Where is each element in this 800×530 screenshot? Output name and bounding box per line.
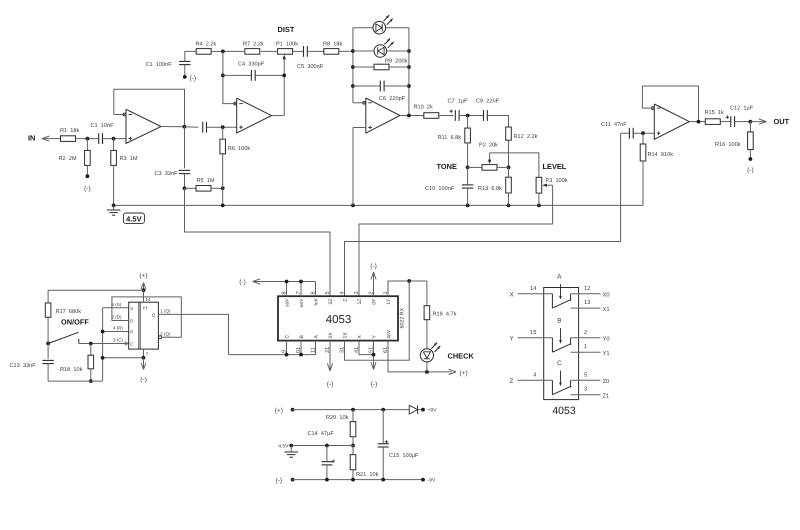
svg-text:11: 11: [311, 347, 317, 353]
node pin numbers top: [282, 291, 390, 294]
svg-text:C14 47µF: C14 47µF: [308, 431, 335, 437]
wire pins14-15 to (-) arrow: [359, 341, 377, 388]
wire U1 output: [161, 126, 185, 128]
node DIST title: [278, 25, 295, 34]
node (+) supply label: [275, 407, 283, 414]
node R18-bottom junction: [89, 379, 93, 383]
node (-) rail left of IC: [239, 279, 315, 286]
wire signal to pin5: [185, 188, 331, 296]
svg-text:C3 33nF: C3 33nF: [155, 171, 179, 177]
svg-text:ppV: ppV: [386, 329, 392, 339]
svg-text:R15 1k: R15 1k: [705, 109, 724, 116]
svg-text:1Y: 1Y: [386, 298, 392, 305]
svg-text:5: 5: [584, 373, 587, 379]
node C11-R14 junction: [641, 131, 645, 135]
svg-text:CHECK: CHECK: [448, 351, 475, 360]
svg-text:1X: 1X: [343, 332, 349, 339]
wire pin8 stub: [286, 282, 288, 297]
node rail junction R: [101, 330, 105, 334]
node R4-R7 junction: [221, 50, 225, 54]
svg-text:C12 1µF: C12 1µF: [730, 105, 754, 111]
svg-text:(-): (-): [190, 75, 197, 82]
resistor R9: [353, 58, 409, 70]
svg-text:(-): (-): [84, 186, 91, 193]
svg-text:4.5V: 4.5V: [126, 214, 141, 223]
transistor SWB analog switch B: [510, 317, 610, 357]
wire 4.5V bus: [114, 204, 643, 206]
node A2 junction: [112, 137, 116, 141]
svg-text:hnI: hnI: [314, 299, 320, 306]
svg-text:IN: IN: [28, 134, 35, 143]
svg-text:C10 100nF: C10 100nF: [425, 186, 455, 192]
wire: [720, 121, 730, 123]
wire: [261, 50, 278, 52]
svg-text:eeV: eeV: [299, 298, 305, 308]
resistor R11: [438, 116, 471, 168]
capacitor C1 10nF: [91, 123, 115, 144]
svg-text:R12 2.2k: R12 2.2k: [514, 133, 538, 140]
svg-text:1Z: 1Z: [357, 299, 363, 305]
op-amp U6 4013 flip-flop body: [129, 302, 159, 349]
svg-text:1: 1: [584, 344, 587, 350]
transistor SW1 footswitch: [48, 332, 79, 343]
wire feedback U4: [642, 86, 698, 122]
wire: [293, 50, 303, 52]
resistor R19: [424, 281, 457, 349]
svg-text:R: R: [130, 330, 133, 335]
node plus-rail junctions: [351, 408, 385, 412]
node pin14-15 junction: [372, 353, 376, 357]
wire pin1 to R19 net: [388, 281, 427, 296]
svg-text:(+): (+): [460, 370, 468, 377]
capacitor C2: [185, 122, 237, 133]
diode LED3 CHECK: [420, 343, 440, 372]
svg-text:4053: 4053: [552, 405, 576, 417]
svg-text:R2 2M: R2 2M: [59, 156, 77, 162]
svg-text:14: 14: [145, 297, 151, 302]
svg-text:Z1: Z1: [603, 394, 610, 400]
svg-text:9: 9: [282, 350, 288, 353]
resistor R2: [59, 139, 91, 177]
wire pin16 to (+) arrow: [388, 341, 468, 377]
node OUT junction: [749, 120, 753, 124]
svg-text:R6 100k: R6 100k: [228, 145, 251, 152]
resistor R6: [220, 127, 250, 188]
node OUT terminal: [750, 117, 789, 126]
svg-text:+9V: +9V: [428, 408, 438, 414]
svg-text:Y0: Y0: [603, 336, 610, 343]
node C7-C9 junction: [466, 114, 470, 118]
svg-text:R14 910k: R14 910k: [648, 151, 674, 158]
svg-text:(-): (-): [327, 381, 334, 388]
node C2-R6 junction: [221, 125, 225, 129]
wire pin4 to C11: [345, 133, 621, 296]
node (-) supply label: [276, 477, 283, 484]
svg-text:R21 10k: R21 10k: [356, 471, 379, 478]
wire: [76, 138, 99, 140]
svg-text:5: 5: [325, 291, 331, 294]
wire C9 to R12: [488, 116, 509, 128]
svg-text:2 (Q): 2 (Q): [160, 331, 171, 336]
svg-text:4.5V: 4.5V: [278, 443, 289, 449]
node plus-rail start: [291, 408, 295, 412]
node IN (input terminal): [28, 134, 61, 143]
svg-text:X1: X1: [603, 307, 610, 313]
potentiometer P1 100k: [276, 41, 298, 116]
op-amp U5 4053 IC body: [278, 296, 398, 340]
diode D1: [409, 405, 423, 414]
node pin7 junction: [299, 280, 303, 284]
node R5-right junction: [221, 186, 225, 190]
wire FF ground pin: [144, 349, 149, 358]
node A1 junction: [86, 137, 90, 141]
capacitor C1b 100nF: [146, 51, 197, 77]
resistor R21: [350, 446, 378, 480]
node C3-R5 junction: [183, 186, 187, 190]
node pin1-net junction: [407, 279, 411, 283]
wire: [339, 50, 353, 52]
svg-text:C11 47nF: C11 47nF: [601, 122, 627, 128]
svg-text:TT: TT: [143, 306, 149, 311]
svg-text:C5 300nF: C5 300nF: [297, 64, 324, 70]
potentiometer P3 100k: [536, 177, 568, 206]
wire LED-loop right rail: [408, 28, 410, 116]
node switch-R18 junction: [89, 342, 93, 346]
svg-text:R4 2.2k: R4 2.2k: [196, 41, 217, 48]
diode LED2: [353, 38, 409, 57]
op-amp U3: [363, 98, 400, 133]
node XR 2206 label: [399, 307, 405, 328]
capacitor C5 300nF: [297, 46, 324, 70]
resistor R12: [506, 127, 538, 167]
node C4 feedback left: [221, 74, 225, 78]
node +9V terminal: [421, 408, 437, 414]
svg-text:4 (R): 4 (R): [113, 326, 124, 331]
svg-text:R9 200k: R9 200k: [385, 58, 408, 65]
svg-text:C9 22nF: C9 22nF: [476, 98, 500, 104]
resistor R20: [326, 410, 356, 446]
node pin9 junction: [285, 353, 289, 357]
resistor R16: [715, 122, 753, 159]
svg-text:3: 3: [354, 291, 360, 294]
svg-text:21: 21: [325, 347, 331, 353]
svg-text:TONE: TONE: [437, 162, 457, 171]
svg-text:31: 31: [340, 347, 346, 353]
node FF-gnd junction: [142, 356, 146, 360]
svg-text:R1 18k: R1 18k: [60, 127, 79, 134]
node (+) above flip-flop: [139, 273, 147, 291]
svg-text:C1 100nF: C1 100nF: [146, 62, 173, 68]
svg-text:R8 18k: R8 18k: [323, 41, 342, 48]
svg-text:Z0: Z0: [603, 378, 610, 385]
wire: [459, 115, 483, 117]
svg-text:ssV: ssV: [285, 298, 291, 307]
svg-text:0Z: 0Z: [328, 299, 334, 305]
svg-text:R18 10k: R18 10k: [60, 366, 83, 373]
capacitor C4 330pF: [223, 62, 284, 81]
svg-text:51: 51: [369, 347, 375, 353]
wire plus rail: [293, 409, 410, 411]
svg-text:3 (C): 3 (C): [113, 338, 124, 343]
svg-text:(+): (+): [139, 273, 147, 280]
svg-text:LEVEL: LEVEL: [543, 162, 567, 171]
wire: [735, 121, 751, 123]
svg-text:C: C: [285, 335, 291, 339]
svg-text:12: 12: [584, 285, 590, 292]
wire LED-loop left rail: [353, 28, 366, 103]
capacitor C9 22nF: [476, 98, 500, 121]
resistor R5: [185, 178, 223, 191]
svg-text:C4 330pF: C4 330pF: [238, 62, 265, 68]
svg-text:R3 1M: R3 1M: [120, 156, 138, 162]
wire to U2 inverting input: [223, 51, 237, 103]
svg-text:(-): (-): [370, 263, 377, 270]
wire minus rail: [293, 479, 423, 481]
resistor R17: [45, 290, 81, 343]
svg-text:DIST: DIST: [278, 25, 295, 34]
wire R5 to 4.5V bus: [222, 188, 224, 205]
transistor SWA analog switch A: [510, 273, 610, 313]
resistor R3: [111, 139, 138, 206]
resistor R14: [640, 133, 673, 205]
svg-text:-9V: -9V: [428, 478, 436, 484]
diode LED1: [353, 15, 409, 34]
svg-text:P3 100k: P3 100k: [546, 177, 568, 184]
svg-text:Z: Z: [510, 378, 514, 385]
node mid-rail junctions: [289, 444, 328, 448]
svg-text:2 (D): 2 (D): [112, 315, 123, 320]
resistor R18: [60, 344, 94, 382]
capacitor C15 100uF: [378, 410, 419, 480]
svg-text:C13 33nF: C13 33nF: [10, 363, 37, 369]
op-amp U1: [123, 109, 161, 143]
svg-text:(-): (-): [140, 376, 147, 383]
wire top rail: [48, 289, 143, 291]
svg-text:OUT: OUT: [774, 117, 790, 126]
wire P2 wiper to P3 top: [490, 153, 539, 177]
capacitor C11 47nF: [601, 122, 654, 138]
wire feedback U1: [114, 89, 185, 126]
wire pin13 riser: [345, 281, 410, 360]
node U4-out junction: [697, 120, 701, 124]
svg-text:4: 4: [340, 291, 346, 294]
resistor R8: [323, 41, 342, 54]
svg-text:13: 13: [584, 299, 590, 306]
node pin10 junction: [299, 353, 303, 357]
wire Q-bar to D loop: [112, 297, 181, 339]
svg-text:(-): (-): [276, 477, 283, 484]
node pin16-LED junction: [425, 370, 429, 374]
node U3-out junction: [407, 114, 411, 118]
wire bottom rail: [48, 380, 103, 382]
node (-) below R16: [747, 157, 754, 174]
wire set-reset rail: [103, 308, 144, 381]
svg-text:C1 10nF: C1 10nF: [91, 123, 115, 129]
svg-text:6022 RX: 6022 RX: [399, 307, 405, 328]
svg-text:15: 15: [530, 330, 536, 336]
svg-text:8: 8: [282, 291, 288, 294]
node tone junctions: [466, 166, 511, 170]
wire U3 + input to bus: [353, 128, 366, 206]
node pin8 junction: [285, 280, 289, 284]
svg-text:(+): (+): [275, 407, 283, 414]
wire: [211, 50, 244, 52]
svg-text:P2 20k: P2 20k: [479, 141, 498, 148]
capacitor C3 33nF: [155, 127, 191, 189]
node 4.5V label: [278, 443, 289, 449]
svg-text:R5 1M: R5 1M: [197, 178, 215, 184]
wire: [103, 138, 126, 140]
node 4053 label: [326, 314, 352, 326]
capacitor C6 220pF: [353, 81, 409, 102]
svg-text:2: 2: [584, 329, 587, 336]
svg-text:(-): (-): [747, 167, 754, 174]
svg-text:A: A: [557, 273, 562, 280]
op-amp U7 4053 switch diagram body: [544, 288, 579, 400]
svg-text:(-): (-): [371, 381, 378, 388]
node R20-bottom junction: [351, 444, 355, 448]
node pin numbers bottom: [282, 347, 390, 353]
svg-text:C15 100µF: C15 100µF: [389, 453, 419, 459]
svg-text:Y: Y: [510, 336, 515, 343]
node (-) below flip-flop: [140, 358, 147, 384]
resistor R10: [414, 104, 439, 119]
ground symbol: [284, 446, 298, 458]
resistor R15: [705, 109, 724, 124]
svg-text:R10 2k: R10 2k: [414, 104, 433, 111]
wire Q output to 4053: [158, 314, 228, 354]
op-amp U4: [651, 104, 689, 139]
capacitor C14 47uF: [308, 431, 335, 480]
capacitor C7 1uF: [448, 98, 469, 121]
node U1-out junction: [183, 125, 187, 129]
svg-text:ON/OFF: ON/OFF: [61, 317, 89, 326]
svg-text:R17 680k: R17 680k: [56, 308, 82, 315]
resistor R1: [60, 127, 79, 142]
svg-text:C: C: [557, 360, 562, 367]
wire: [308, 50, 324, 52]
node FF supply junction: [142, 288, 146, 292]
svg-text:6: 6: [311, 291, 317, 294]
wire U4 output: [689, 121, 705, 123]
svg-text:Z: Z: [343, 299, 349, 302]
svg-text:7: 7: [296, 291, 302, 294]
svg-text:S: S: [130, 306, 133, 311]
svg-text:6 (S): 6 (S): [112, 302, 122, 307]
svg-text:X0: X0: [603, 291, 610, 298]
svg-text:41: 41: [354, 347, 360, 353]
node bus junctions: [112, 204, 541, 208]
resistor R4: [196, 41, 217, 54]
ground 4.5V: [107, 205, 145, 223]
svg-text:0Y: 0Y: [372, 298, 378, 305]
svg-text:2: 2: [369, 291, 375, 294]
resistor R13: [478, 167, 511, 205]
node LEVEL label: [543, 162, 567, 171]
node pin names bottom: [285, 329, 393, 339]
svg-text:R7 2.2k: R7 2.2k: [243, 41, 264, 48]
svg-text:D: D: [130, 319, 133, 324]
wire U2 output to wiper: [272, 115, 285, 117]
node C4 feedback right: [282, 74, 286, 78]
capacitor C12 1uF: [726, 105, 754, 127]
node (-) below R2: [84, 174, 91, 192]
node -9V terminal: [421, 478, 436, 484]
svg-text:C7 1µF: C7 1µF: [448, 98, 469, 104]
node minus-rail start: [291, 478, 295, 482]
wire FF supply pin: [144, 290, 151, 302]
svg-text:01: 01: [296, 347, 302, 353]
node pin names top: [285, 298, 393, 308]
node LED row2 junctions: [351, 49, 411, 53]
wire pin2 to (-) arrow: [370, 263, 377, 296]
node R9 row junctions: [351, 65, 411, 69]
svg-text:X: X: [510, 292, 515, 299]
node CHECK label: [448, 351, 475, 360]
svg-text:(-): (-): [239, 279, 246, 286]
capacitor C10 100nF: [425, 167, 473, 205]
wire pin7 stub: [300, 282, 302, 297]
svg-text:B: B: [557, 317, 561, 324]
node 4053 diagram label: [552, 405, 576, 417]
svg-text:61: 61: [383, 347, 389, 353]
node ON/OFF label: [61, 317, 89, 326]
wire switch to clock: [79, 342, 128, 346]
svg-text:3: 3: [584, 386, 587, 393]
svg-text:1 (Q): 1 (Q): [160, 309, 171, 314]
node (-) below C1b: [183, 75, 196, 82]
op-amp U2: [234, 98, 272, 133]
svg-text:1: 1: [383, 291, 389, 294]
svg-text:C: C: [130, 342, 133, 347]
node minus-rail junctions: [325, 478, 385, 482]
svg-text:R19 4.7k: R19 4.7k: [433, 311, 457, 318]
node C6 row junctions: [351, 84, 411, 88]
svg-text:Y1: Y1: [603, 351, 610, 357]
wire pins 9-10-11: [229, 341, 316, 355]
svg-text:14: 14: [530, 286, 537, 292]
svg-text:P1 100k: P1 100k: [276, 41, 298, 48]
node rail junction bottom: [101, 356, 105, 360]
wire mid rail 4.5V: [291, 445, 353, 447]
node switch pivot: [46, 342, 50, 346]
wire P3 wiper to pin3: [359, 185, 553, 296]
svg-text:4053: 4053: [326, 314, 352, 326]
svg-text:R13 6.8k: R13 6.8k: [478, 185, 502, 192]
wire pin6 stub: [315, 282, 317, 297]
resistor R7: [243, 41, 264, 54]
potentiometer P2 20k: [468, 141, 509, 170]
svg-text:R16 100k: R16 100k: [715, 141, 741, 148]
transistor SWC analog switch C: [510, 360, 610, 400]
node FF pin labels: [112, 302, 172, 347]
capacitor C13 33nF: [10, 344, 54, 382]
svg-text:C6 220pF: C6 220pF: [379, 96, 406, 102]
wire pin12 to (-) arrow: [327, 341, 334, 388]
node TONE label: [437, 162, 457, 171]
svg-text:R11 6.8k: R11 6.8k: [438, 134, 462, 141]
svg-text:0X: 0X: [328, 332, 334, 339]
svg-text:R20 10k: R20 10k: [326, 414, 349, 421]
wire: [439, 115, 454, 117]
wire U3 output: [400, 115, 424, 117]
